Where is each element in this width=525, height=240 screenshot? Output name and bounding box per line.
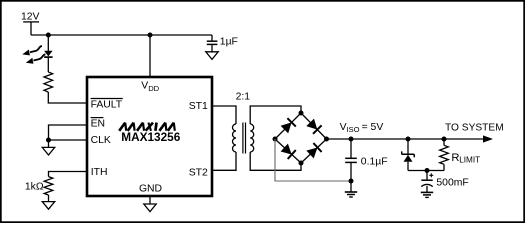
node junction C2 tap: [349, 137, 354, 142]
wire LED cathode to resistor: [47, 57, 49, 72]
diode D6 schottky: [402, 151, 415, 161]
wire bridge diamond: [275, 113, 327, 163]
node bridge right: [324, 137, 329, 142]
wire VISO rail: [327, 138, 445, 140]
label RLIMIT: [451, 152, 480, 165]
svg-text:GND: GND: [139, 183, 162, 194]
svg-text:TO SYSTEM: TO SYSTEM: [445, 123, 504, 134]
wire ST2 to transformer: [212, 152, 236, 170]
resistor R1 1kOhm: [44, 177, 53, 195]
wire schottky-RLIMIT link: [408, 170, 444, 172]
ground (EN-CLK): [42, 147, 54, 155]
ground isolated (C3): [421, 191, 433, 193]
diode D5 bridge bottom-right: [306, 143, 321, 158]
MAXIM logo: [119, 123, 175, 131]
wire EN: [49, 125, 88, 140]
node junction RLIMIT tap: [442, 137, 447, 142]
diode D2 bridge left-top: [281, 118, 296, 133]
diode D3 bridge top-right: [306, 119, 321, 134]
capacitor C3 500mF polarized: [421, 173, 468, 188]
wire secondary bottom to bridge: [250, 152, 301, 170]
wire bridge negative to isolated ground: [275, 139, 351, 181]
wire resistor to FAULT pin: [48, 92, 87, 103]
wire ground stub: [350, 181, 352, 192]
wire rail to C1: [211, 35, 213, 41]
svg-text:500mF: 500mF: [436, 177, 468, 188]
wire 1k to ground: [48, 195, 50, 202]
ground (1uF): [206, 52, 218, 60]
wire EN-CLK to ground: [48, 140, 50, 147]
wire TO SYSTEM arrow: [444, 123, 504, 143]
node junction rail-LED: [46, 33, 51, 38]
svg-text:ISO: ISO: [346, 125, 359, 134]
svg-text:ITH: ITH: [91, 167, 108, 178]
svg-text:0.1µF: 0.1µF: [361, 156, 388, 167]
ground (1k): [42, 202, 54, 210]
svg-text:DD: DD: [148, 84, 159, 93]
capacitor C1 1uF: [207, 37, 238, 48]
wire LED anode: [47, 35, 49, 51]
LED D1: [44, 51, 53, 57]
svg-text:LIMIT: LIMIT: [459, 155, 480, 164]
svg-text:MAX13256: MAX13256: [121, 130, 180, 144]
wire 12V rail: [31, 34, 212, 36]
wire rail to C2: [350, 139, 352, 158]
wire to schottky cathode: [407, 139, 409, 154]
LED light arrows: [22, 46, 45, 64]
diode D4 bridge left-bottom: [281, 144, 296, 159]
node junction EN-CLK: [46, 138, 51, 143]
node junction schottky tap: [406, 137, 411, 142]
node bridge left: [273, 137, 278, 142]
pin FAULT label: [91, 99, 123, 111]
label VISO = 5V: [340, 122, 384, 134]
wire GND pin: [149, 196, 151, 204]
wire to RLIMIT: [443, 139, 445, 145]
pin VDD label: [141, 81, 159, 93]
svg-text:V: V: [141, 81, 148, 92]
svg-text:1kΩ: 1kΩ: [25, 182, 44, 193]
wire CLK: [49, 139, 88, 141]
IC U1 MAX13256 body: [87, 77, 212, 196]
pin EN label: [91, 118, 105, 130]
svg-text:2:1: 2:1: [236, 91, 251, 102]
node bridge bottom: [299, 161, 304, 166]
svg-text:EN: EN: [91, 118, 105, 129]
node junction C3 tap: [425, 168, 430, 173]
node bridge top: [299, 111, 304, 116]
capacitor C2 0.1uF: [345, 156, 387, 167]
ground (IC GND): [144, 204, 156, 212]
wire ITH: [49, 172, 88, 177]
wire C3 to ground: [426, 186, 428, 192]
svg-text:ST2: ST2: [189, 167, 208, 178]
wire to C3: [426, 171, 428, 181]
resistor RLIMIT: [440, 145, 449, 164]
wire VDD: [149, 35, 151, 77]
svg-text:FAULT: FAULT: [91, 99, 123, 110]
wire secondary top to bridge: [250, 106, 301, 124]
transformer T1: [233, 123, 254, 154]
resistor (FAULT LED series): [44, 72, 53, 92]
wire RLIMIT bottom: [443, 164, 445, 170]
ground isolated (C2): [345, 191, 357, 193]
wire ST1 to transformer: [212, 106, 236, 124]
svg-text:12V: 12V: [21, 12, 40, 23]
wire schottky anode: [407, 162, 409, 171]
node junction isolated ground: [349, 179, 354, 184]
svg-text:CLK: CLK: [91, 135, 111, 146]
node junction rail-VDD: [148, 33, 153, 38]
wire C2 to ground: [350, 162, 352, 181]
svg-text:1µF: 1µF: [220, 37, 238, 48]
svg-text:= 5V: = 5V: [362, 122, 384, 133]
supply 12V terminal: [21, 12, 40, 35]
wire C1 to ground: [211, 44, 213, 51]
svg-text:ST1: ST1: [189, 101, 208, 112]
